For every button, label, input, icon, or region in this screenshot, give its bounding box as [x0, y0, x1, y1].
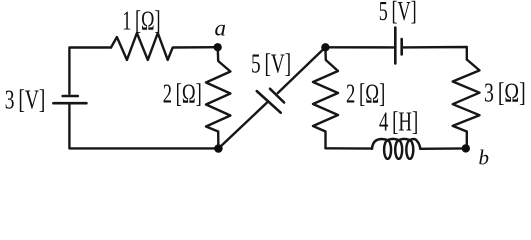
- svg-text:2 [Ω]: 2 [Ω]: [163, 78, 202, 108]
- svg-text:5 [V]: 5 [V]: [379, 0, 417, 26]
- svg-text:1 [Ω]: 1 [Ω]: [122, 5, 160, 35]
- svg-text:3 [V]: 3 [V]: [5, 84, 46, 114]
- svg-text:a: a: [215, 16, 227, 41]
- svg-text:3 [Ω]: 3 [Ω]: [484, 78, 526, 108]
- svg-text:4 [H]: 4 [H]: [379, 107, 418, 137]
- svg-text:b: b: [479, 146, 490, 170]
- svg-text:5 [V]: 5 [V]: [251, 49, 291, 79]
- svg-text:2 [Ω]: 2 [Ω]: [346, 79, 385, 109]
